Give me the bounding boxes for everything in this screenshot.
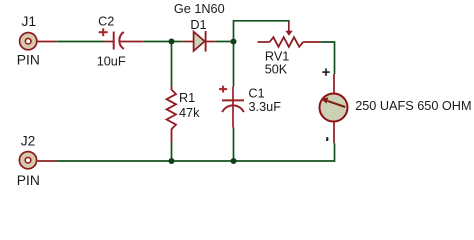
svg-text:250 UAFS 650 OHM: 250 UAFS 650 OHM [355,99,471,113]
wire J2 red lead [38,160,57,162]
capacitor C2 [114,32,124,50]
diode D1 [194,31,206,52]
junction node B [231,39,237,45]
potentiometer RV1 [258,37,304,47]
junction node A2 bottom [169,158,175,164]
svg-text:J2: J2 [21,133,36,148]
wire C1 to bottom rail [233,128,235,162]
meter M1 minus mark [326,137,328,141]
wire D1 to node B [216,41,234,43]
junction node B2 bottom [231,158,237,164]
connector J2 [19,152,36,169]
capacitor C2 plus sign [99,28,108,36]
wire meter bottom lead [333,121,335,143]
wire D1 cathode lead [206,41,215,43]
svg-text:C1: C1 [248,86,264,100]
wire C1 top lead [232,87,234,101]
potentiometer RV1 wiper arrow [285,22,292,36]
svg-text:Ge 1N60: Ge 1N60 [174,2,225,16]
wire RV1 right lead red [303,41,320,43]
svg-text:RV1: RV1 [265,50,289,64]
svg-text:PIN: PIN [17,53,40,68]
wire node A to D1 [172,41,183,43]
svg-text:47k: 47k [179,106,200,120]
wire J1 to C2 (red lead segment) [38,41,57,43]
wire C2 left lead [104,41,113,43]
wire meter top lead [333,74,335,95]
svg-text:R1: R1 [179,91,195,105]
wire RV1 to meter corner [320,42,334,74]
meter M1 plus mark [322,68,329,75]
wire node B up to wiper loop [234,21,289,42]
meter M1 [320,94,348,122]
wire J1 to C2 (green segment) [56,41,104,43]
wire meter to bottom rail corner [56,143,334,161]
resistor R1 [167,87,176,143]
capacitor C1 plus sign [219,86,227,93]
svg-text:3.3uF: 3.3uF [249,100,282,114]
wire D1 anode lead [183,41,194,43]
wire R1 to bottom rail [171,143,173,162]
capacitor C1 [222,100,244,112]
svg-text:D1: D1 [190,18,206,32]
wire C2 to node A [144,41,172,43]
svg-text:10uF: 10uF [97,55,126,69]
svg-text:PIN: PIN [17,173,40,188]
wire C2 right lead [120,41,144,43]
wire node B down to C1 [233,42,235,87]
wire node A down to R1 [171,42,173,87]
connector J1 [20,33,37,50]
svg-text:C2: C2 [98,14,114,28]
svg-text:J1: J1 [22,14,37,29]
svg-text:50K: 50K [265,63,288,77]
wire C1 through-arc lead [232,100,234,127]
junction node A [169,39,175,45]
meter M1 needle [321,97,345,107]
